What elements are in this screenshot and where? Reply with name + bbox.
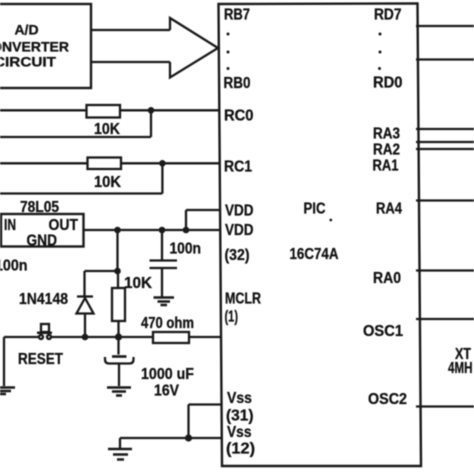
- svg-text:RESET: RESET: [18, 351, 63, 368]
- svg-text:RA0: RA0: [373, 270, 401, 287]
- svg-text:Vss: Vss: [227, 424, 252, 441]
- svg-text:OSC1: OSC1: [363, 323, 403, 340]
- svg-text:10K: 10K: [94, 174, 121, 191]
- svg-text:RA1: RA1: [373, 158, 399, 175]
- svg-text:16C74A: 16C74A: [290, 246, 339, 263]
- svg-text:100n: 100n: [0, 258, 28, 275]
- svg-text:CONVERTER: CONVERTER: [0, 39, 69, 55]
- svg-text:470 ohm: 470 ohm: [141, 315, 194, 332]
- svg-text:RD0: RD0: [373, 75, 403, 92]
- svg-text:4MH: 4MH: [448, 360, 473, 377]
- svg-text:RB0: RB0: [224, 75, 251, 92]
- svg-text:(12): (12): [226, 441, 255, 458]
- svg-text:(32): (32): [225, 247, 250, 264]
- svg-text:CIRCUIT: CIRCUIT: [0, 54, 56, 70]
- svg-text:MCLR: MCLR: [225, 291, 261, 308]
- svg-text:RA2: RA2: [373, 142, 400, 159]
- svg-text:100n: 100n: [170, 241, 202, 258]
- svg-text:RD7: RD7: [374, 7, 402, 24]
- svg-text:OUT: OUT: [49, 217, 79, 234]
- svg-text:VDD: VDD: [225, 222, 254, 239]
- svg-text:GND: GND: [27, 233, 58, 250]
- svg-text:RB7: RB7: [224, 7, 250, 24]
- svg-text:VDD: VDD: [225, 203, 254, 220]
- svg-text:78L05: 78L05: [20, 199, 59, 216]
- svg-text:10K: 10K: [124, 275, 152, 292]
- svg-text:(31): (31): [226, 408, 254, 425]
- svg-text:Vss: Vss: [227, 390, 252, 407]
- svg-text:RC1: RC1: [224, 159, 252, 176]
- svg-text:PIC: PIC: [304, 201, 326, 218]
- svg-text:10K: 10K: [94, 121, 120, 138]
- svg-text:IN: IN: [4, 217, 16, 234]
- svg-text:A/D: A/D: [14, 22, 38, 38]
- svg-text:1000 uF: 1000 uF: [141, 366, 194, 383]
- svg-text:1N4148: 1N4148: [19, 291, 68, 308]
- svg-text:RC0: RC0: [224, 108, 254, 125]
- svg-text:16V: 16V: [154, 383, 179, 400]
- svg-text:RA3: RA3: [373, 126, 400, 143]
- svg-text:(1): (1): [225, 309, 239, 326]
- svg-text:OSC2: OSC2: [368, 391, 407, 408]
- svg-text:RA4: RA4: [376, 201, 402, 218]
